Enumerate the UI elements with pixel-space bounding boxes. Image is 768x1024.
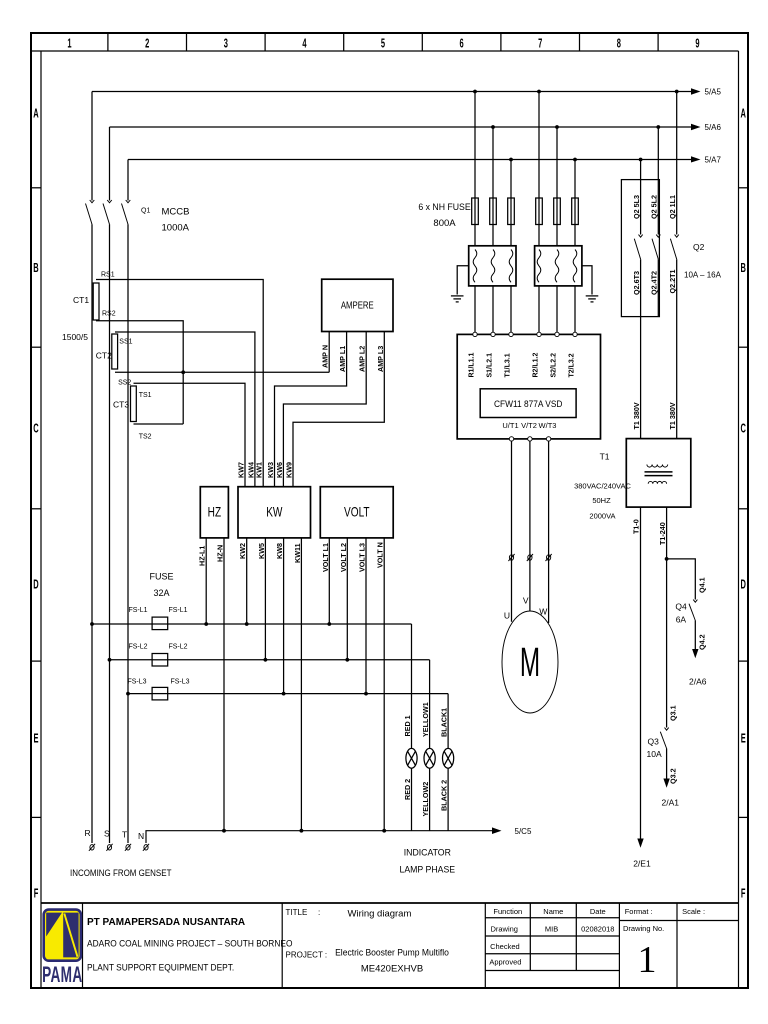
wire VOLT L1 pin: [328, 538, 330, 624]
svg-text:AMP N: AMP N: [321, 345, 330, 368]
node 2/E1: [633, 859, 651, 869]
svg-text:KW8: KW8: [275, 543, 284, 559]
cable mark U: [508, 554, 514, 561]
label U: [504, 611, 510, 621]
node 5/C5: [515, 827, 532, 836]
coil choke2 L1: [537, 250, 541, 283]
column numbers 1-9: [67, 38, 699, 51]
PAMA logo text: [42, 962, 82, 987]
svg-text:10A: 10A: [647, 749, 662, 759]
svg-text:VOLT N: VOLT N: [376, 542, 385, 568]
wire AMP N pin: [328, 332, 330, 373]
VSD name box: [480, 389, 576, 418]
label BLACK1: [440, 708, 449, 737]
svg-text:T1: T1: [600, 452, 610, 462]
VOLT meter box: [320, 487, 393, 538]
svg-text:32A: 32A: [153, 588, 169, 598]
bus L2: [110, 124, 701, 131]
drawing number 1: [638, 939, 657, 981]
svg-text:N: N: [138, 831, 144, 841]
wire motor W: [548, 441, 550, 623]
breaker Q1 pole S: [103, 200, 112, 224]
wire choke1 to VSD T1: [510, 286, 512, 332]
pin circle T1/L3.1: [509, 332, 513, 336]
node 2/A1: [662, 798, 680, 808]
svg-text:1500/5: 1500/5: [62, 332, 88, 342]
svg-text:KW11: KW11: [293, 543, 302, 563]
label FUSE: [149, 572, 173, 582]
svg-text:9: 9: [695, 38, 699, 51]
svg-text:YELLOW2: YELLOW2: [421, 782, 430, 817]
title block divider logo cell: [82, 903, 84, 988]
label HZ-L1: [198, 546, 207, 566]
svg-text:Q2.2T1: Q2.2T1: [668, 270, 677, 294]
wire NH fuse 3: [510, 160, 512, 246]
label FS-L3 right: [170, 679, 189, 686]
label U/T1: [502, 421, 518, 430]
node 5/A5: [705, 88, 722, 97]
fuse FS-L2: [152, 654, 168, 667]
coil choke2 L2: [555, 250, 559, 283]
wire lamp YELLOW: [429, 660, 431, 831]
wire RS1 to KW1: [96, 280, 263, 487]
label KW9: [285, 462, 294, 478]
junction dots FS-L1: [90, 622, 331, 626]
svg-text:T1 380V: T1 380V: [668, 402, 677, 429]
svg-text:FUSE: FUSE: [149, 572, 173, 582]
svg-text:SS2: SS2: [118, 380, 131, 387]
svg-text:W/T3: W/T3: [539, 421, 557, 430]
svg-text:V/T2: V/T2: [521, 421, 537, 430]
svg-text:1: 1: [638, 939, 657, 981]
svg-text::: :: [318, 908, 320, 917]
wire SS1 to KW4: [115, 332, 255, 487]
label LAMP PHASE: [400, 864, 456, 874]
label Q4: [675, 602, 687, 612]
svg-text:5: 5: [381, 38, 385, 51]
choke box 1: [469, 246, 516, 286]
svg-text:PLANT SUPPORT EQUIPMENT DEPT.: PLANT SUPPORT EQUIPMENT DEPT.: [87, 962, 234, 972]
pin label S1/L2.1: [487, 353, 494, 378]
CT3 current transformer: [131, 386, 137, 422]
label Q3.2: [669, 768, 678, 784]
svg-text:VOLT L2: VOLT L2: [339, 543, 348, 572]
breaker Q2 pole1: [634, 235, 642, 260]
label SS2: [118, 380, 131, 387]
svg-text:MIB: MIB: [545, 925, 558, 934]
label VOLT L1: [321, 543, 330, 572]
label FS-L3 left: [127, 679, 146, 686]
svg-text:YELLOW1: YELLOW1: [421, 702, 430, 737]
label FS-L2 left: [128, 644, 147, 651]
wire lamp BLACK: [447, 694, 449, 831]
svg-text:Q2.6T3: Q2.6T3: [632, 271, 641, 295]
coil choke1 L1: [473, 250, 477, 283]
label FS-L1 left: [128, 607, 147, 614]
wire choke1 to VSD R1: [474, 286, 476, 332]
svg-text:2/A1: 2/A1: [662, 798, 680, 808]
cable end T: [125, 844, 131, 851]
label T1: [600, 452, 610, 462]
fuse NH4: [536, 198, 543, 225]
title value: [348, 909, 412, 920]
bus L1 (top): [92, 88, 701, 95]
svg-text:T1-240: T1-240: [658, 522, 667, 545]
label Q2 1L1: [668, 195, 677, 219]
svg-text:Q3.1: Q3.1: [669, 705, 678, 721]
wire HZ-L1 pin: [205, 538, 207, 624]
svg-text:AMPERE: AMPERE: [341, 300, 374, 311]
label R: [85, 828, 91, 838]
label 6A: [676, 615, 687, 625]
pin label T2/L3.2: [569, 353, 576, 377]
svg-text:2/E1: 2/E1: [633, 859, 651, 869]
svg-text:ME420EXHVB: ME420EXHVB: [361, 964, 423, 975]
svg-text:Q2 1L1: Q2 1L1: [668, 195, 677, 219]
label 1500/5: [62, 332, 88, 342]
svg-text:Q3.2: Q3.2: [669, 768, 678, 784]
svg-text:KW6: KW6: [275, 462, 284, 478]
svg-text:BLACK1: BLACK1: [440, 708, 449, 737]
svg-text:Approved: Approved: [489, 958, 521, 967]
svg-text:A: A: [740, 108, 746, 121]
pin circle T2/L3.2: [573, 332, 577, 336]
svg-text:AMP L2: AMP L2: [358, 346, 367, 372]
svg-text:3: 3: [224, 38, 228, 51]
svg-text:50HZ: 50HZ: [592, 496, 611, 505]
title block divider title cell: [281, 903, 283, 988]
company line2: [87, 938, 293, 948]
label Q2.4T2: [650, 271, 659, 295]
svg-text:F: F: [741, 888, 746, 901]
svg-text:U/T1: U/T1: [502, 421, 518, 430]
svg-text:KW9: KW9: [285, 462, 294, 478]
wire FS-L2 line: [110, 659, 430, 661]
wire SS2 to AMP N: [115, 371, 329, 373]
wire Q4 to 2/A6: [692, 621, 698, 659]
wire lamp RED: [411, 624, 413, 831]
svg-text:2/A6: 2/A6: [689, 677, 707, 687]
wire KW2 pin: [246, 538, 248, 624]
label KW11: [293, 543, 302, 563]
label T1-0: [632, 519, 641, 534]
label Q2.2T1: [668, 270, 677, 294]
svg-text:Q2 5L3: Q2 5L3: [632, 195, 641, 219]
junction dot T1-240 branch: [665, 557, 669, 561]
svg-text:7: 7: [538, 38, 542, 51]
pin circle R1/L1.1: [473, 332, 477, 336]
label TS1: [139, 392, 152, 399]
svg-text:T: T: [122, 830, 127, 840]
coil choke1 L2: [491, 250, 495, 283]
KW meter box: [238, 487, 311, 538]
svg-text:6: 6: [460, 38, 464, 51]
svg-text:M: M: [520, 641, 540, 686]
label CT2: [96, 351, 112, 361]
label Q2 5L2: [650, 195, 659, 219]
wire T1-0 to 2/E1: [637, 507, 643, 848]
label W/T3: [539, 421, 557, 430]
svg-text:R1/L1.1: R1/L1.1: [469, 352, 476, 377]
label RS2: [102, 311, 116, 318]
label T: [122, 830, 127, 840]
svg-text:AMP L1: AMP L1: [338, 346, 347, 372]
svg-text:5/A7: 5/A7: [705, 156, 722, 165]
junction dots bus L3: [509, 158, 642, 162]
svg-text:Q4.1: Q4.1: [697, 577, 706, 593]
svg-text:D: D: [33, 579, 38, 592]
wire Q4 branch: [667, 559, 696, 600]
cable end R: [89, 844, 95, 851]
label KW3: [266, 462, 275, 478]
svg-text:CT3: CT3: [113, 400, 129, 410]
title block top line: [41, 902, 739, 904]
svg-text:T2/L3.2: T2/L3.2: [569, 353, 576, 377]
label CT3: [113, 400, 129, 410]
svg-text:1: 1: [67, 38, 71, 51]
svg-text:4: 4: [302, 38, 306, 51]
VSD U1 box: [457, 334, 600, 439]
label INDICATOR: [404, 847, 452, 857]
label RED2: [403, 779, 412, 800]
pin circle U/T1: [509, 437, 513, 441]
wire Q2 pole2 upper: [657, 127, 659, 235]
svg-text:Wiring diagram: Wiring diagram: [348, 909, 412, 920]
svg-text:SS1: SS1: [119, 339, 132, 346]
pin circle S2/L2.2: [555, 332, 559, 336]
fuse NH2: [490, 198, 497, 225]
company name: [87, 917, 245, 928]
PAMA logo: [44, 910, 81, 961]
label Q4.2: [697, 634, 706, 650]
fuse FS-L3: [152, 687, 168, 700]
wire AMP L3 to KW9: [293, 332, 384, 487]
svg-text:VOLT: VOLT: [344, 504, 370, 520]
wire NH fuse 4: [538, 92, 540, 246]
svg-text:TS1: TS1: [139, 392, 152, 399]
svg-text:KW3: KW3: [266, 462, 275, 478]
label KW8: [275, 543, 284, 559]
svg-text:RED 2: RED 2: [403, 779, 412, 800]
fuse FS-L1: [152, 617, 168, 630]
fuse NH5: [554, 198, 561, 225]
svg-text:Date: Date: [590, 907, 606, 916]
svg-text:Format :: Format :: [625, 907, 653, 916]
svg-text:C: C: [33, 423, 39, 436]
pin circle S1/L2.1: [491, 332, 495, 336]
svg-text:T1/L3.1: T1/L3.1: [505, 353, 512, 377]
svg-text:5/C5: 5/C5: [515, 827, 532, 836]
svg-text:FS-L3: FS-L3: [170, 679, 189, 686]
project value line1: [335, 947, 449, 958]
label INCOMING FROM GENSET: [70, 867, 172, 878]
label MCCB: [162, 207, 190, 218]
wire TS2: [134, 423, 184, 425]
label AMP L2: [358, 346, 367, 372]
breaker Q3: [660, 728, 668, 749]
border inner left band line: [40, 51, 42, 988]
wire FS-L1 line: [92, 623, 412, 625]
svg-text:Function: Function: [493, 907, 522, 916]
svg-text:B: B: [740, 262, 745, 275]
wire FS-L3 line: [128, 693, 448, 695]
label 1000A: [162, 223, 190, 234]
svg-text:AMP L3: AMP L3: [376, 346, 385, 372]
svg-text:HZ: HZ: [208, 504, 222, 520]
svg-text:FS-L1: FS-L1: [128, 607, 147, 614]
svg-text:HZ-N: HZ-N: [216, 545, 225, 562]
label Q2 5L3: [632, 195, 641, 219]
svg-text:LAMP PHASE: LAMP PHASE: [400, 864, 456, 874]
wire RS2: [96, 321, 183, 424]
svg-text:PROJECT :: PROJECT :: [286, 951, 328, 960]
project value line2: [361, 964, 423, 975]
wire VOLT L3 pin: [365, 538, 367, 694]
breaker Q2 pole3: [670, 235, 678, 260]
label 380VAC/240VAC: [574, 482, 631, 491]
wire choke1 to VSD S1: [492, 286, 494, 332]
top band column ticks: [108, 33, 658, 51]
svg-text:Drawing: Drawing: [490, 925, 518, 934]
svg-text:R: R: [85, 828, 91, 838]
label TS2: [139, 434, 152, 441]
svg-text:PAMA: PAMA: [42, 962, 82, 987]
ground choke box 2: [582, 266, 598, 302]
coil choke2 L3: [573, 250, 577, 283]
label N: [138, 831, 144, 841]
label KW1: [255, 462, 264, 478]
label KW4: [246, 462, 255, 478]
svg-text:A: A: [33, 108, 39, 121]
label FS-L2 right: [168, 644, 187, 651]
table header texts: [493, 907, 605, 916]
svg-text:380VAC/240VAC: 380VAC/240VAC: [574, 482, 631, 491]
wire KW11 pin: [300, 538, 302, 831]
wire motor V: [529, 441, 531, 611]
wire NH fuse 5: [556, 127, 558, 246]
svg-text:800A: 800A: [433, 218, 456, 229]
T1 primary winding: [647, 465, 668, 468]
drawing no label: [623, 924, 664, 933]
label CT1: [73, 295, 89, 305]
svg-text:T1 380V: T1 380V: [632, 402, 641, 429]
label Q3.1: [669, 705, 678, 721]
svg-text:ADARO COAL MINING PROJECT – SO: ADARO COAL MINING PROJECT – SOUTH BORNEO: [87, 938, 293, 948]
svg-text:VOLT L1: VOLT L1: [321, 543, 330, 572]
svg-text:INDICATOR: INDICATOR: [404, 847, 452, 857]
label KW2: [238, 543, 247, 559]
transformer T1 box: [626, 439, 691, 508]
node 5/A6: [705, 123, 722, 132]
T1 core lines: [645, 472, 673, 476]
svg-text:T1-0: T1-0: [632, 519, 641, 534]
svg-text:Electric Booster Pump Multiflo: Electric Booster Pump Multiflo: [335, 947, 449, 958]
svg-text:MCCB: MCCB: [162, 207, 190, 218]
breaker Q1 pole T: [122, 200, 131, 224]
svg-text:S: S: [104, 829, 110, 839]
table row approved: [489, 958, 521, 967]
svg-text:RED 1: RED 1: [403, 715, 412, 736]
svg-text:5/A5: 5/A5: [705, 88, 722, 97]
label 800A: [433, 218, 456, 229]
svg-text:VOLT L3: VOLT L3: [358, 543, 367, 572]
svg-text:FS-L2: FS-L2: [168, 644, 187, 651]
svg-text:D: D: [740, 579, 745, 592]
svg-text:Checked: Checked: [490, 942, 520, 951]
svg-text:E: E: [33, 733, 38, 746]
svg-text:CT2: CT2: [96, 351, 112, 361]
label KW7: [237, 462, 246, 478]
wire KW5 pin: [264, 538, 266, 660]
cable mark V: [527, 554, 533, 561]
wire Q2 pole2 lower: [657, 259, 659, 316]
wire VOLT L2 pin: [346, 538, 348, 660]
CT2 current transformer: [112, 334, 118, 369]
svg-text:KW1: KW1: [255, 462, 264, 478]
label Q2: [693, 242, 705, 252]
svg-text:B: B: [33, 262, 38, 275]
svg-text:CT1: CT1: [73, 295, 89, 305]
svg-text:RS2: RS2: [102, 311, 116, 318]
label VOLT N: [376, 542, 385, 568]
left band row ticks: [31, 188, 41, 818]
pin circle V/T2: [528, 437, 532, 441]
AMPERE meter box: [322, 279, 393, 331]
svg-text:Q2.4T2: Q2.4T2: [650, 271, 659, 295]
svg-text:S2/L2.2: S2/L2.2: [551, 353, 558, 378]
label AMP L3: [376, 346, 385, 372]
svg-text:KW2: KW2: [238, 543, 247, 559]
fuse NH1: [472, 198, 479, 225]
title block table rows: [485, 918, 738, 971]
wire AMP L1 to KW3: [275, 332, 347, 487]
label VOLT L2: [339, 543, 348, 572]
svg-text:Drawing No.: Drawing No.: [623, 924, 664, 933]
label 6 x NH FUSE: [418, 202, 470, 212]
label SS1: [119, 339, 132, 346]
pin label S2/L2.2: [551, 353, 558, 378]
label RED1: [403, 715, 412, 736]
bus L3: [128, 156, 701, 162]
Q2 box: [621, 180, 659, 317]
wire Q2 pole3 upper: [676, 92, 678, 235]
label 10A: [647, 749, 662, 759]
svg-text:F: F: [34, 888, 39, 901]
svg-text:KW7: KW7: [237, 462, 246, 478]
wire choke2 to VSD S2: [556, 286, 558, 332]
wire T phase: [127, 160, 129, 844]
svg-text:FS-L2: FS-L2: [128, 644, 147, 651]
wire VOLT N pin: [383, 538, 385, 831]
svg-text:CFW11 877A VSD: CFW11 877A VSD: [494, 398, 563, 409]
choke box 2: [535, 246, 582, 286]
cable mark W: [546, 554, 552, 561]
format label: [625, 907, 653, 916]
label FS-L1 right: [168, 607, 187, 614]
svg-text:TITLE: TITLE: [286, 908, 308, 917]
svg-text:2000VA: 2000VA: [589, 512, 615, 521]
svg-text:PT PAMAPERSADA NUSANTARA: PT PAMAPERSADA NUSANTARA: [87, 917, 245, 928]
svg-text:RS1: RS1: [101, 272, 115, 279]
wire NH fuse 2: [492, 127, 494, 246]
junction dot RS2/SS2: [181, 370, 185, 374]
company line3: [87, 962, 234, 972]
label Q1: [141, 208, 150, 215]
label YELLOW1: [421, 702, 430, 737]
svg-text:KW5: KW5: [257, 543, 266, 559]
wire Q3 to 2/A1: [663, 749, 669, 788]
svg-text:2: 2: [145, 38, 149, 51]
